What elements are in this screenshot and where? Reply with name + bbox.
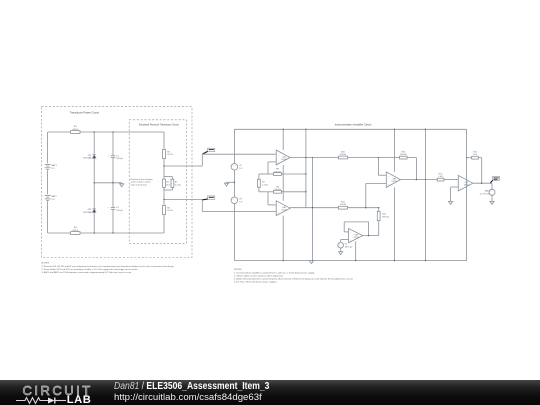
svg-text:V4: V4 [345, 243, 347, 245]
svg-text:R11: R11 [341, 202, 346, 204]
svg-text:R3: R3 [167, 151, 170, 153]
svg-text:value of strain force: value of strain force [131, 183, 148, 186]
resistor R15 [472, 152, 479, 160]
svg-text:R7: R7 [262, 182, 265, 184]
svg-text:R1: R1 [74, 126, 78, 128]
svg-text:150 Ω: 150 Ω [167, 154, 173, 156]
junction dots left circuit [94, 131, 165, 233]
wire OA1 feedback row [259, 173, 306, 175]
resistor R11 [339, 202, 348, 210]
svg-text:NOTES:: NOTES: [234, 269, 243, 271]
wire top rail [48, 131, 164, 133]
battery BAT2 [45, 195, 58, 201]
svg-text:9 V: 9 V [239, 201, 243, 203]
zener diode ZD2 [83, 209, 96, 214]
svg-text:9 V: 9 V [52, 168, 56, 170]
wire OA3 power column [394, 129, 395, 262]
svg-text:Simulated Pressure Transducer: Simulated Pressure Transducer Circuit [139, 123, 179, 126]
svg-text:110 kΩ: 110 kΩ [340, 204, 347, 206]
wire top supply rail [234, 128, 466, 130]
capacitor C1 [108, 155, 124, 160]
svg-text:R12: R12 [382, 213, 387, 215]
svg-text:LM741: LM741 [392, 181, 397, 183]
svg-text:110 kΩ: 110 kΩ [340, 154, 347, 156]
svg-text:LM741: LM741 [281, 210, 286, 212]
wire OA5 output row [363, 235, 379, 236]
wire corner down to OA2 input [201, 200, 203, 212]
svg-text:BAT2: BAT2 [52, 195, 58, 198]
svg-text:R10: R10 [341, 151, 346, 153]
svg-text:1N4738A: 1N4738A [83, 157, 92, 160]
voltage source V2 [231, 164, 243, 171]
wire supply column E right edge [466, 129, 468, 260]
resistor R13 [400, 151, 407, 159]
resistor R7 [258, 179, 269, 187]
ground split supply midpoint [224, 182, 235, 187]
zener diode ZD1 [83, 155, 96, 160]
op-amp OA5 [349, 229, 363, 243]
svg-text:1N4738A: 1N4738A [83, 211, 92, 214]
svg-text:Instrumentation Amplifier Circ: Instrumentation Amplifier Circuit [335, 122, 372, 126]
wire feedback column [305, 129, 306, 208]
wire OA1 output row [290, 157, 378, 158]
svg-text:9 V: 9 V [52, 199, 56, 201]
svg-text:1. Resistors R3, R4, R5 and R6: 1. Resistors R3, R4, R5 and R6 are perfo… [41, 265, 174, 268]
op-amp OA2 [276, 201, 290, 216]
svg-text:270 kΩ: 270 kΩ [274, 189, 281, 191]
svg-text:R13: R13 [401, 151, 406, 153]
wire zener diode column [93, 132, 95, 233]
svg-text:470 Ω: 470 Ω [72, 129, 78, 131]
svg-text:−: − [388, 176, 390, 178]
wire +OUT to OA1 noninverting input [202, 153, 276, 155]
svg-text:9 V: 9 V [239, 168, 243, 170]
svg-text:180 kΩ: 180 kΩ [400, 154, 407, 156]
svg-text:−: − [350, 232, 352, 234]
wire offset resistor column [378, 208, 380, 236]
dashed box: Simulated Pressure Transducer Circuit [129, 120, 186, 244]
svg-text:+: + [108, 156, 110, 158]
wire left battery column [47, 132, 49, 233]
resistor R6 [163, 205, 173, 214]
wire OA3 output row [400, 179, 458, 180]
svg-text:2. Offset nulling resistors al: 2. Offset nulling resistors allow for of… [234, 274, 284, 277]
resistor R1 [71, 126, 80, 133]
wire -OUT to OA2 input [202, 211, 276, 213]
svg-text:−: − [460, 180, 462, 182]
svg-text:48.75 μV: 48.75 μV [345, 246, 353, 248]
wire OA2 feedback row [259, 191, 306, 193]
svg-text:BAT1: BAT1 [52, 164, 58, 167]
svg-text:+: + [108, 207, 110, 209]
svg-text:R4: R4 [166, 182, 168, 184]
svg-text:R9: R9 [276, 186, 280, 188]
svg-text:R6: R6 [167, 207, 170, 209]
resistor R4 [163, 179, 170, 187]
wire OA4 noninverting input to ground [449, 187, 459, 204]
op-amp OA1 [276, 150, 290, 165]
wire supply source column [233, 129, 235, 260]
annotation text inside transducer box [131, 178, 153, 186]
svg-text:ZD1: ZD1 [88, 155, 93, 157]
wire parallel resistor section [164, 177, 172, 190]
wire to OA3 noninverting input [365, 184, 386, 209]
svg-text:OA1: OA1 [282, 155, 286, 158]
svg-text:LM741: LM741 [281, 159, 286, 161]
wire OA2 output row [290, 207, 379, 208]
resistor R2 [71, 227, 80, 234]
svg-text:ZD2: ZD2 [88, 209, 93, 211]
wire OA4 output row [473, 183, 492, 184]
wire transducer +OUT row [164, 165, 202, 167]
svg-text:R15: R15 [473, 152, 478, 154]
svg-text:−: − [278, 205, 280, 207]
svg-text:V2: V2 [239, 165, 242, 167]
capacitor C2 [108, 207, 124, 212]
wire to OA3 inverting input [378, 157, 387, 175]
svg-text:150 Ω: 150 Ω [167, 210, 173, 212]
svg-text:4. R7, R11: 470 Ω with bench p: 4. R7, R11: 470 Ω with bench power suppl… [234, 280, 278, 283]
node flag output OUT [490, 177, 499, 183]
wire OA5 feedback loop [344, 222, 368, 236]
wire OA5 noninverting input [341, 240, 349, 243]
op-amp OA3 [386, 172, 400, 188]
ground GND1 mid rail [120, 183, 124, 187]
wire transducer column upper [163, 132, 165, 177]
voltage source V3 [231, 197, 243, 204]
svg-text:1 kΩ: 1 kΩ [473, 154, 478, 156]
svg-text:R2: R2 [74, 227, 78, 229]
svg-text:270 kΩ: 270 kΩ [274, 171, 281, 173]
battery BAT1 [45, 164, 58, 170]
notes text left [41, 262, 174, 273]
svg-text:2. Zener diodes ZD1 and ZD2 ar: 2. Zener diodes ZD1 and ZD2 are providin… [41, 268, 138, 271]
svg-text:1 kΩ: 1 kΩ [438, 176, 443, 178]
wire mid rail to ground [94, 182, 122, 184]
wire gain resistor stubs [258, 174, 260, 192]
ground on bottom rail [309, 261, 313, 264]
svg-text:100 μF: 100 μF [116, 210, 123, 212]
wire op-amp power column [283, 129, 284, 262]
wire transducer column lower [163, 190, 165, 233]
wire capacitor column [112, 132, 114, 233]
svg-text:OA2: OA2 [282, 206, 286, 209]
resistor R14 [437, 173, 444, 181]
wire OA1 inverting input [268, 162, 276, 174]
svg-text:−: − [490, 194, 491, 196]
resistor R10 [339, 151, 348, 159]
svg-text:2.1 kΩ: 2.1 kΩ [262, 185, 268, 187]
voltage source V4 [338, 242, 353, 248]
resistor R5 [171, 179, 181, 187]
svg-text:Transducer Power Circuit: Transducer Power Circuit [70, 111, 99, 115]
svg-text:6.2 kΩ: 6.2 kΩ [175, 184, 181, 186]
wire bottom rail [48, 232, 164, 234]
svg-text:LM741: LM741 [354, 237, 359, 239]
svg-text:C1: C1 [116, 155, 119, 157]
wire mid column [312, 157, 313, 261]
svg-text:R5: R5 [175, 182, 177, 184]
svg-text:3. BAT1 and BAT2 are 9 Volt ba: 3. BAT1 and BAT2 are 9 Volt batteries, m… [41, 271, 132, 274]
svg-text:(+) 767 mV: (+) 767 mV [480, 193, 490, 195]
svg-text:OA5: OA5 [354, 233, 358, 236]
notes text right [234, 269, 354, 283]
svg-text:470 Ω: 470 Ω [72, 230, 78, 232]
svg-text:−: − [339, 247, 340, 249]
svg-text:R14: R14 [439, 173, 444, 175]
wire transducer -OUT row [164, 199, 202, 201]
wire supply column D [425, 129, 426, 262]
op-amp OA4 [458, 175, 473, 191]
svg-text:NOTES:: NOTES: [41, 262, 50, 264]
wire bottom supply rail [234, 260, 466, 262]
resistor R12 [377, 211, 389, 220]
wire OA3 feedback [378, 158, 416, 180]
dashed box: Transducer Power Circuit [41, 107, 192, 258]
svg-text:Resistors in this technique: Resistors in this technique [131, 178, 153, 181]
svg-text:OA3: OA3 [392, 177, 396, 180]
resistor R9 [274, 186, 282, 193]
svg-text:MM1: MM1 [485, 190, 489, 192]
wire OA2 inverting input [268, 192, 276, 205]
svg-text:100 μF: 100 μF [116, 158, 123, 160]
svg-text:180 kΩ: 180 kΩ [382, 216, 389, 218]
title: Simulated Pressure Transducer Circuit [139, 123, 179, 126]
title: Instrumentation Amplifier Circuit [335, 122, 372, 126]
title: Transducer Power Circuit [70, 111, 99, 115]
svg-text:R8: R8 [276, 169, 280, 171]
svg-text:46.1: 46.1 [166, 184, 170, 186]
svg-text:3. A 460 Ohm potentiometer is: 3. A 460 Ohm potentiometer is performing… [234, 277, 354, 280]
svg-text:+: + [278, 155, 280, 157]
node flag +OUT [203, 148, 215, 154]
resistor R8 [274, 169, 282, 176]
node flag -OUT [203, 196, 215, 200]
wire OA4 feedback [466, 157, 482, 183]
ground below V4 [339, 248, 343, 255]
svg-text:used to imitate a certain: used to imitate a certain [131, 181, 151, 184]
resistor R3 [163, 149, 173, 158]
wire corner up to OA1 input [201, 154, 203, 166]
svg-text:1. Instrumentation amplifier i: 1. Instrumentation amplifier is powered … [234, 271, 315, 274]
svg-text:C2: C2 [116, 207, 119, 209]
svg-text:V3: V3 [239, 198, 242, 200]
wire OA5 power pin to rail [355, 241, 356, 261]
voltmeter MM1 with ground [480, 183, 495, 204]
